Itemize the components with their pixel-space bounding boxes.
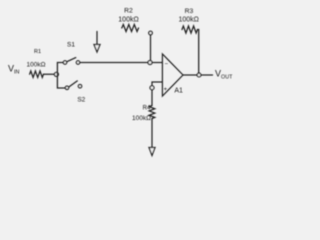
wire op-amp output to VOUT [183, 74, 213, 76]
wire R4 to ground arrow [151, 119, 153, 148]
wire input bracket vertical [57, 63, 65, 89]
svg-text:−: − [165, 62, 169, 68]
resistor R4 [132, 105, 155, 122]
ground (negative rail arrow) [149, 148, 155, 156]
wire non-inverting input stub [152, 82, 162, 86]
svg-text:100kΩ: 100kΩ [178, 17, 198, 24]
svg-text:R2: R2 [124, 8, 133, 15]
svg-text:+: + [164, 87, 168, 93]
svg-text:100kΩ: 100kΩ [118, 17, 138, 24]
switch S1 [63, 42, 79, 65]
svg-text:100kΩ: 100kΩ [132, 115, 151, 122]
svg-text:100kΩ: 100kΩ [27, 62, 46, 69]
wire feedback vertical to inverting input [150, 35, 152, 63]
wire S1 to op-amp inverting input [80, 62, 163, 64]
svg-text:S2: S2 [77, 97, 85, 104]
node output junction [197, 73, 201, 77]
svg-text:R3: R3 [185, 8, 194, 15]
svg-text:R1: R1 [34, 49, 41, 55]
node inverting input junction [148, 61, 152, 65]
wire R1 to input node [44, 73, 55, 75]
resistor R3 [178, 8, 198, 33]
switch S2 [65, 81, 85, 104]
resistor R2 [118, 8, 138, 32]
svg-text:S1: S1 [67, 42, 75, 49]
op-amp A1 [162, 54, 183, 96]
node VOUT [215, 69, 233, 81]
wire R3 to output node [198, 30, 199, 74]
node input junction [54, 72, 58, 76]
resistor R1 [27, 49, 46, 77]
node non-inverting terminal [150, 86, 154, 90]
node VIN [8, 64, 20, 76]
svg-text:A1: A1 [174, 88, 183, 95]
node feedback top terminal [149, 31, 153, 35]
wire terminal to R4 [151, 90, 153, 106]
arrow input signal marker [94, 32, 100, 53]
